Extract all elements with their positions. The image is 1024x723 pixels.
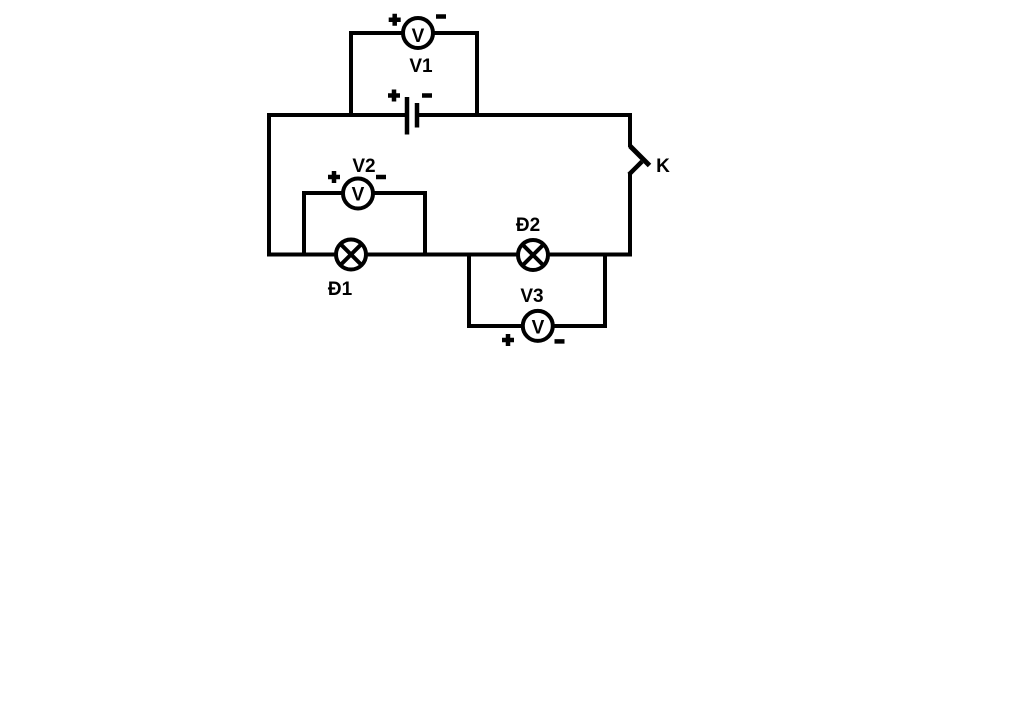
polarity - of V3 (555, 339, 565, 344)
voltmeter V2 (343, 179, 373, 209)
wire: V3 branch right vertical (603, 253, 607, 328)
wire: V3 branch bottom right segment (550, 324, 607, 328)
polarity - of V1 (436, 14, 446, 19)
polarity + of V1 (389, 14, 401, 26)
switch K blade (630, 146, 650, 166)
wire: main loop right vertical below switch (628, 173, 632, 257)
wire: V1 branch right vertical (475, 33, 479, 115)
svg-text:V: V (412, 26, 425, 47)
svg-text:V3: V3 (520, 286, 543, 307)
polarity - of V2 (376, 175, 386, 180)
svg-text:V: V (352, 185, 365, 206)
voltmeter V1 (403, 18, 433, 48)
polarity + of V2 (328, 171, 340, 183)
wire: V1 branch top left segment (349, 31, 405, 35)
svg-text:V1: V1 (409, 56, 433, 77)
polarity + of V3 (502, 334, 514, 346)
wire: V2 branch top right segment (371, 191, 427, 195)
svg-text:V: V (532, 317, 545, 338)
wire: main loop top, left of battery (267, 113, 405, 117)
lamp D1 (336, 240, 366, 270)
wire: V2 branch top left segment (302, 191, 345, 195)
polarity - of battery (422, 93, 432, 98)
voltmeter V3 (523, 311, 553, 341)
lamp D2 (518, 240, 548, 270)
wire: main loop right vertical above switch (628, 113, 632, 147)
wire: main loop top, right of battery (419, 113, 632, 117)
wire: V3 branch left vertical (467, 253, 471, 328)
svg-text:V2: V2 (352, 156, 375, 177)
wire: V1 branch left vertical (349, 33, 353, 115)
wire: main loop left vertical (267, 113, 271, 257)
svg-text:K: K (656, 156, 670, 177)
wire: V1 branch top right segment (432, 31, 479, 35)
switch K lower contact stub (629, 162, 642, 175)
wire: main loop bottom (267, 253, 632, 257)
battery positive plate (long) (405, 97, 410, 135)
svg-text:Đ1: Đ1 (328, 279, 353, 300)
polarity + of battery (388, 90, 400, 102)
svg-text:Đ2: Đ2 (516, 215, 540, 236)
wire: V2 branch right vertical (423, 191, 427, 257)
wire: V3 branch bottom left segment (467, 324, 524, 328)
battery negative plate (short) (415, 103, 420, 128)
wire: V2 branch left vertical (302, 191, 306, 257)
